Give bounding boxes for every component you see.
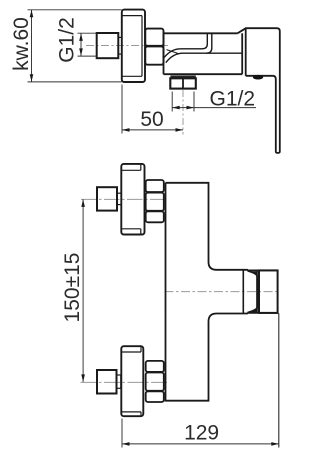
upper wall flange (front view) <box>121 164 144 235</box>
svg-text:G1/2: G1/2 <box>56 17 79 63</box>
lever handle (side view) <box>238 28 280 153</box>
dimension 50 (wall to outlet) <box>122 85 183 134</box>
outlet hex G1/2 (side view) <box>170 78 196 88</box>
dimension kw.60 (flange height) <box>28 10 122 82</box>
cap corner fills <box>251 271 258 275</box>
lever seen edge-on / extension line <box>278 313 280 447</box>
svg-text:G1/2: G1/2 <box>210 88 256 111</box>
lower inlet nipple (front view) <box>97 370 117 394</box>
outlet centerline (vertical) <box>182 90 184 135</box>
outlet collar (dark) <box>170 76 195 79</box>
dimension G1/2 outlet with leader <box>172 92 256 112</box>
cartridge cap (front view) <box>243 270 259 314</box>
upper inlet nipple (front view) <box>97 187 117 210</box>
upper union hex nut (front view) <box>146 180 164 222</box>
body (front view) <box>166 183 278 401</box>
nipple neck (side view) <box>118 37 122 54</box>
handle block (front view) <box>259 270 278 313</box>
dimension 129 <box>122 419 279 448</box>
svg-text:150±15: 150±15 <box>61 253 84 323</box>
upper connection centerline <box>81 198 168 200</box>
mixer body (side view) <box>164 33 243 74</box>
handle underside detail (dark blob) <box>253 75 263 80</box>
cartridge housing lines (side view) <box>164 33 242 62</box>
centerline (side view axis) <box>86 45 168 47</box>
svg-text:kw.60: kw.60 <box>10 17 33 71</box>
dimension 150±15 <box>82 199 84 382</box>
lower wall flange (front view) <box>121 346 143 416</box>
cartridge centerline (middle) <box>165 291 281 293</box>
dimension G1/2 (inlet nipple, side view) <box>78 33 97 56</box>
lower connection centerline <box>81 381 169 383</box>
wall flange (side view) <box>122 10 145 82</box>
lower nipple neck <box>117 375 121 388</box>
lower union hex nut (front view) <box>146 361 164 402</box>
inlet nipple G1/2 (side view) <box>97 33 119 58</box>
upper nipple neck <box>117 193 121 204</box>
union hex nut (side view) <box>145 29 163 65</box>
svg-text:50: 50 <box>140 108 163 131</box>
svg-text:129: 129 <box>184 422 219 445</box>
